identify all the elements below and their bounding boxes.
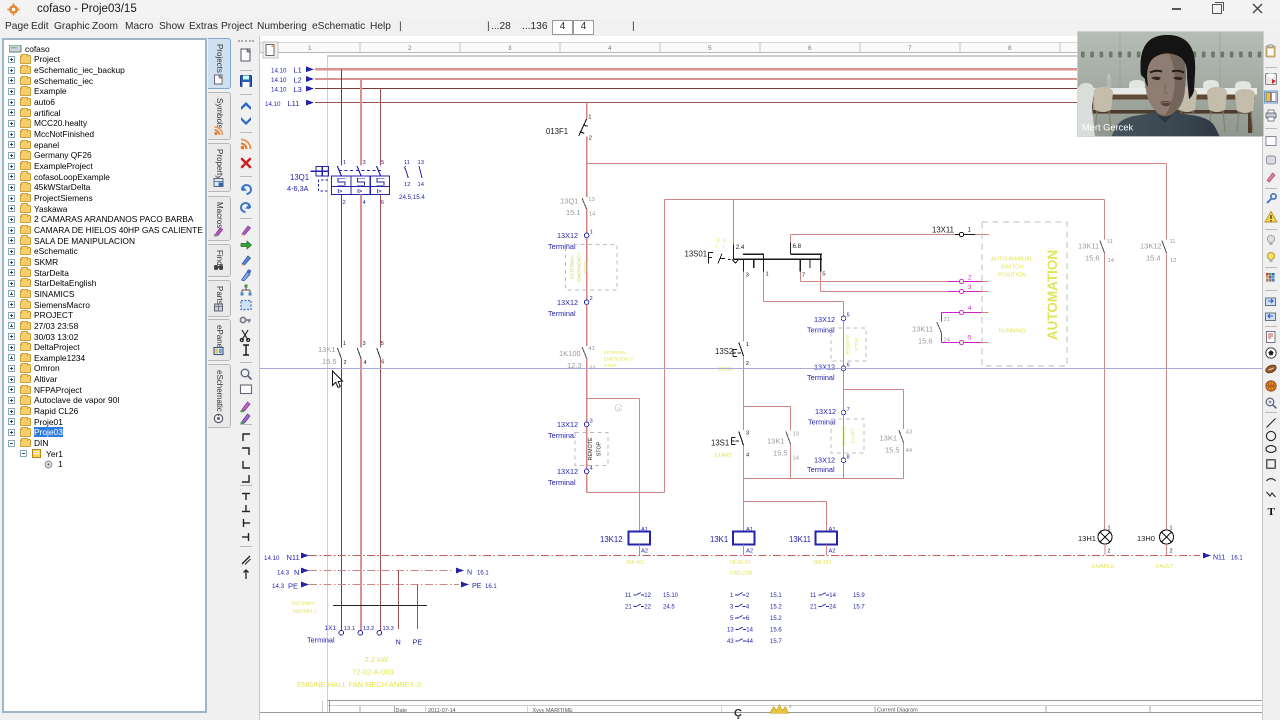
crosshair	[260, 368, 1262, 370]
svg-text:5: 5	[381, 341, 384, 347]
svg-text:5: 5	[381, 160, 384, 166]
svg-text:Mert Gercek: Mert Gercek	[1082, 123, 1133, 133]
svg-text:13Q1: 13Q1	[290, 173, 309, 182]
schematic canvas	[260, 36, 1262, 720]
svg-text:24.5: 24.5	[663, 605, 675, 611]
svg-text:I: I	[716, 244, 717, 250]
svg-text:13K12: 13K12	[600, 535, 623, 544]
svg-text:REMOTE: REMOTE	[846, 334, 852, 355]
svg-text:24: 24	[829, 605, 836, 611]
svg-text:13K12: 13K12	[1140, 241, 1162, 250]
svg-text:Ç: Ç	[734, 708, 742, 720]
svg-text:14: 14	[746, 628, 753, 634]
svg-text:1: 1	[1108, 526, 1111, 532]
svg-text:15.10: 15.10	[663, 593, 679, 599]
wire N11 rail	[309, 555, 1200, 557]
wire L1 rail	[315, 68, 1262, 70]
svg-text:14.10: 14.10	[265, 101, 281, 108]
selector bar	[733, 258, 821, 260]
svg-text:4: 4	[363, 200, 367, 206]
svg-text:Terminal: Terminal	[548, 431, 576, 440]
svg-text:12: 12	[1170, 258, 1176, 264]
svg-text:11: 11	[1170, 239, 1176, 245]
svg-text:14: 14	[793, 455, 800, 461]
svg-text:Terminal: Terminal	[807, 373, 835, 382]
svg-text:15.2: 15.2	[770, 605, 782, 611]
svg-text:13S2: 13S2	[715, 347, 733, 356]
wire pin1 down	[763, 272, 765, 302]
svg-text:Terminal: Terminal	[548, 478, 576, 487]
wire terminal2 to 1K100	[586, 305, 588, 347]
svg-text:15.6: 15.6	[918, 336, 933, 345]
svg-text:13.2: 13.2	[363, 626, 374, 632]
svg-text:POSITION: POSITION	[998, 272, 1026, 278]
svg-text:START: START	[851, 428, 857, 443]
svg-text:13X12: 13X12	[557, 231, 578, 240]
svg-text:43: 43	[727, 639, 734, 645]
wire terminal5 feed	[843, 302, 845, 317]
terminal 13X11:1	[955, 234, 975, 236]
svg-text:CAD-22M: CAD-22M	[730, 571, 752, 577]
contact 13K1 15.5 (13/14)	[790, 407, 792, 431]
svg-text:5: 5	[968, 336, 972, 342]
svg-text:a: a	[617, 406, 620, 412]
fuse-switch 013F1	[579, 119, 588, 136]
svg-text:15.2: 15.2	[770, 616, 782, 622]
wire terminal1 to terminal2	[586, 238, 588, 300]
terminal 13X12:5	[841, 316, 846, 321]
svg-text:6: 6	[381, 200, 384, 206]
svg-text:5: 5	[847, 313, 850, 319]
svg-text:43: 43	[906, 429, 912, 435]
svg-text:N: N	[467, 570, 472, 577]
label PE 16.1	[461, 582, 469, 588]
svg-text:EXTERNAL: EXTERNAL	[570, 254, 575, 279]
svg-text:11: 11	[404, 160, 410, 166]
svg-text:STOP: STOP	[854, 338, 860, 351]
dashed box remote stop	[575, 433, 608, 466]
lamp 13H1	[1098, 530, 1112, 544]
svg-text:I>: I>	[338, 189, 344, 195]
svg-text:L2: L2	[294, 75, 302, 84]
breaker 13Q1 pole contacts	[337, 166, 341, 176]
wire 13K12 coil column	[639, 399, 641, 532]
svg-text:7: 7	[802, 272, 805, 278]
svg-text:15.1: 15.1	[566, 208, 581, 217]
svg-text:15.5: 15.5	[322, 357, 337, 366]
svg-text:15.7: 15.7	[770, 639, 782, 645]
svg-text:13X12: 13X12	[814, 455, 835, 464]
svg-text:1: 1	[968, 227, 972, 233]
label N 16.1	[456, 568, 464, 574]
svg-text:I>: I>	[377, 189, 383, 195]
svg-text:15.4: 15.4	[1146, 253, 1161, 262]
ruler bar	[260, 42, 1262, 53]
menu bar	[0, 18, 1280, 36]
svg-text:NHXMH-J: NHXMH-J	[293, 609, 317, 615]
svg-text:72-02-A-003: 72-02-A-003	[352, 668, 394, 677]
svg-text:2: 2	[408, 45, 412, 52]
svg-text:AUTO-MANUAL: AUTO-MANUAL	[991, 256, 1034, 262]
svg-text:13S1: 13S1	[711, 438, 729, 447]
svg-text:A2: A2	[829, 548, 836, 554]
svg-text:2: 2	[344, 360, 347, 366]
svg-text:1: 1	[588, 115, 591, 121]
svg-text:2: 2	[746, 593, 750, 599]
svg-text:4: 4	[364, 360, 367, 366]
svg-text:5: 5	[822, 271, 825, 277]
svg-text:14.10: 14.10	[271, 77, 287, 84]
circled a mark	[615, 405, 622, 412]
contact 13K1 15.5 (43/44)	[903, 390, 905, 430]
svg-text:12: 12	[404, 182, 410, 188]
svg-text:1: 1	[343, 160, 346, 166]
coil 13K12	[629, 532, 651, 545]
logo crown	[770, 705, 789, 714]
svg-text:21: 21	[810, 605, 817, 611]
wire N rail	[309, 570, 452, 572]
selector contact ticks	[743, 259, 745, 271]
svg-text:15.7: 15.7	[853, 605, 865, 611]
wire rung bottom bus	[744, 478, 904, 480]
svg-text:15.6: 15.6	[1085, 253, 1100, 262]
svg-text:24.5,15.4: 24.5,15.4	[399, 194, 425, 201]
selector riser 2.4	[732, 244, 734, 259]
svg-text:REMOTE: REMOTE	[842, 426, 848, 447]
svg-text:2.2 kW: 2.2 kW	[365, 655, 389, 664]
svg-text:21: 21	[944, 317, 950, 323]
dashed box automation	[982, 222, 1067, 366]
wire phase3 mid	[380, 195, 382, 348]
svg-text:®: ®	[789, 705, 792, 709]
svg-text:13H0: 13H0	[1137, 534, 1155, 543]
svg-text:09-30-10: 09-30-10	[730, 560, 750, 566]
svg-text:Terminal: Terminal	[807, 465, 835, 474]
selector riser 6.8	[790, 243, 792, 255]
svg-text:6: 6	[381, 359, 384, 365]
svg-text:14.10: 14.10	[271, 87, 287, 94]
svg-text:368-161: 368-161	[813, 560, 832, 566]
svg-text:2: 2	[589, 136, 592, 142]
svg-text:Terminal: Terminal	[548, 309, 576, 318]
svg-text:15.6: 15.6	[770, 628, 782, 634]
wire terminal4 down	[586, 474, 588, 493]
svg-text:3: 3	[590, 418, 593, 424]
wire 13K1 coil drop	[743, 502, 745, 532]
wire fuse to junction	[586, 137, 588, 164]
svg-text:15.5: 15.5	[885, 445, 900, 454]
svg-text:L11: L11	[288, 99, 300, 108]
svg-text:RUNNING: RUNNING	[998, 328, 1026, 334]
svg-text:REMOTE: REMOTE	[588, 437, 594, 460]
svg-text:4: 4	[968, 306, 972, 312]
svg-text:PE: PE	[288, 581, 298, 590]
ruler corner page icon	[263, 42, 278, 58]
svg-text:N11: N11	[287, 553, 300, 562]
contact 13K12 15.4 (11/12)	[1166, 164, 1168, 240]
svg-text:16.1: 16.1	[1231, 556, 1243, 562]
title block	[327, 700, 1262, 702]
svg-text:13X12: 13X12	[814, 315, 835, 324]
wire terminal5 to terminal6	[843, 321, 845, 366]
svg-text:INTERNAL: INTERNAL	[604, 350, 627, 355]
svg-text:7: 7	[847, 407, 850, 413]
svg-text:4: 4	[590, 465, 593, 471]
svg-text:1X1: 1X1	[325, 625, 337, 632]
wire terminal8 down	[843, 463, 845, 479]
wire remote start top link	[844, 389, 904, 391]
svg-text:5: 5	[708, 45, 712, 52]
svg-text:Xyyy MARITIME: Xyyy MARITIME	[533, 708, 574, 714]
svg-text:13: 13	[727, 628, 734, 634]
wire PE drop	[417, 585, 419, 630]
svg-text:3: 3	[746, 272, 749, 278]
svg-text:I>: I>	[357, 189, 363, 195]
svg-text:14.3: 14.3	[277, 570, 290, 577]
svg-text:13K11: 13K11	[789, 535, 811, 544]
svg-text:2011-07-14: 2011-07-14	[428, 708, 456, 714]
terminal 13X12:2	[584, 300, 589, 305]
svg-text:1: 1	[590, 229, 593, 235]
svg-text:2: 2	[1108, 549, 1111, 555]
svg-text:N11: N11	[1213, 555, 1225, 562]
svg-text:A2: A2	[641, 548, 648, 554]
svg-text:2: 2	[343, 200, 346, 206]
svg-text:A1: A1	[829, 527, 836, 533]
svg-text:1: 1	[746, 342, 749, 348]
wire L2 drop	[360, 79, 362, 166]
svg-text:13X11: 13X11	[932, 225, 954, 234]
wire terminal7 feed	[843, 390, 845, 411]
svg-text:13.1: 13.1	[344, 626, 355, 632]
svg-text:2.4: 2.4	[736, 244, 745, 251]
svg-text:N: N	[294, 568, 299, 577]
svg-text:1: 1	[730, 593, 734, 599]
project tree panel	[2, 38, 207, 713]
wire phase3 lower	[380, 359, 382, 631]
svg-text:13K1: 13K1	[767, 436, 785, 445]
svg-text:2: 2	[968, 275, 972, 281]
start button 13S1	[743, 407, 745, 431]
svg-text:EMERGENCY: EMERGENCY	[604, 357, 634, 362]
svg-text:Date: Date	[396, 708, 408, 714]
wire L2 rail	[315, 78, 1262, 80]
svg-text:13K11: 13K11	[1078, 241, 1099, 250]
wire L1 drop	[340, 69, 342, 165]
svg-text:3: 3	[508, 45, 512, 52]
svg-text:1: 1	[308, 45, 312, 52]
wire terminal6 down	[843, 371, 845, 390]
svg-text:4: 4	[746, 605, 750, 611]
svg-text:5: 5	[730, 616, 734, 622]
svg-text:14: 14	[418, 182, 425, 188]
lamp 13H0	[1160, 530, 1174, 544]
svg-text:15.9: 15.9	[853, 593, 865, 599]
terminal 13X12:7	[841, 410, 846, 415]
svg-text:A1: A1	[746, 527, 753, 533]
svg-text:4: 4	[746, 452, 750, 458]
svg-text:44: 44	[906, 448, 913, 454]
svg-text:8: 8	[1008, 45, 1012, 52]
svg-text:13X12: 13X12	[557, 420, 578, 429]
svg-text:STOP: STOP	[597, 441, 603, 456]
svg-text:16.1: 16.1	[477, 571, 489, 577]
svg-text:13: 13	[418, 160, 424, 166]
contact 13K11 15.6 (11/14)	[1104, 200, 1106, 240]
svg-text:13X12: 13X12	[557, 467, 578, 476]
svg-text:6: 6	[808, 45, 812, 52]
contactor 13K1 main contacts	[338, 348, 342, 359]
svg-text:3: 3	[363, 341, 366, 347]
wire 13K11 coil drop	[826, 502, 828, 532]
svg-text:13X12: 13X12	[815, 407, 836, 416]
svg-text:2: 2	[590, 296, 593, 302]
left icon toolbar	[233, 36, 260, 720]
wire coils feed link	[743, 479, 745, 502]
svg-text:13K1: 13K1	[880, 433, 898, 442]
breaker 13Q1	[311, 167, 329, 192]
contact 13K11 15.6 (21/24)	[941, 313, 943, 322]
svg-text:STOP: STOP	[604, 363, 616, 368]
breaker 13Q1 box	[332, 176, 390, 195]
wire pin5 to box pin3	[820, 272, 822, 292]
svg-text:14: 14	[1108, 258, 1115, 264]
wire rail3 to selector	[733, 200, 735, 245]
wire N drop	[398, 571, 400, 630]
contact 13Q1 15.1	[582, 198, 587, 209]
svg-text:Terminal: Terminal	[548, 242, 576, 251]
wire 13S2 to rung	[743, 356, 745, 407]
svg-text:6: 6	[847, 363, 850, 369]
svg-text:3: 3	[730, 605, 734, 611]
svg-text:PE: PE	[472, 583, 482, 590]
svg-text:START: START	[714, 453, 733, 459]
svg-text:013F1: 013F1	[546, 127, 568, 136]
svg-text:3: 3	[746, 430, 749, 436]
wire junction2 to 13K12 column	[587, 398, 640, 400]
sheet border	[326, 56, 328, 713]
wire PE rail	[309, 584, 459, 586]
svg-text:ENABLE: ENABLE	[1092, 564, 1115, 570]
wire box pin4	[942, 312, 983, 314]
wire L11 to fuse	[586, 103, 588, 119]
wire L3 rail	[315, 88, 1262, 90]
wire to 13X11	[791, 234, 956, 236]
wire 13K11 contact to lamp	[1104, 253, 1106, 530]
svg-text:FAULT: FAULT	[1156, 564, 1174, 570]
svg-text:14.10: 14.10	[271, 67, 287, 74]
svg-text:STOP: STOP	[717, 367, 733, 373]
svg-text:6.8: 6.8	[793, 243, 802, 250]
svg-text:3: 3	[363, 160, 366, 166]
wire 1K100 to junction2	[586, 358, 588, 399]
svg-text:1: 1	[766, 271, 769, 277]
svg-text:AUTOMATION: AUTOMATION	[1045, 250, 1060, 340]
mouse cursor	[333, 371, 343, 388]
svg-text:4-6,3A: 4-6,3A	[287, 184, 309, 193]
svg-text:ENGINE HALL FAN MECH ANNEX-2: ENGINE HALL FAN MECH ANNEX-2	[297, 680, 421, 689]
svg-text:13S01: 13S01	[685, 249, 708, 258]
svg-text:7: 7	[908, 45, 912, 52]
svg-text:14.10: 14.10	[264, 555, 280, 562]
svg-text:13K11: 13K11	[912, 324, 933, 333]
svg-text:14: 14	[589, 212, 596, 218]
svg-text:13: 13	[793, 431, 799, 437]
wire bottom link to riser	[587, 492, 665, 494]
svg-text:EMERGENCY: EMERGENCY	[577, 252, 582, 282]
svg-text:2: 2	[746, 361, 749, 367]
svg-text:L1: L1	[294, 66, 302, 75]
wire rung top bus	[744, 406, 791, 408]
svg-text:11: 11	[1107, 239, 1113, 245]
terminal 13X12:8	[841, 458, 846, 463]
wire 13K12 contact to lamp	[1166, 253, 1168, 530]
svg-text:SWITCH: SWITCH	[1001, 264, 1024, 270]
right icon toolbar	[1262, 36, 1280, 720]
svg-text:14: 14	[829, 593, 836, 599]
svg-text:3: 3	[968, 285, 972, 291]
wire junction to 13Q1 aux	[586, 164, 588, 198]
terminal 13X12:4	[584, 469, 589, 474]
svg-text:16.1: 16.1	[485, 584, 497, 590]
dashed box manual stop	[831, 328, 866, 361]
svg-text:A1: A1	[641, 527, 648, 533]
svg-text:13H1: 13H1	[1078, 534, 1096, 543]
svg-text:13.3: 13.3	[383, 626, 394, 632]
svg-text:11: 11	[810, 593, 817, 599]
wire rail 15.2	[587, 163, 1167, 165]
cable marker	[333, 605, 427, 607]
svg-text:368-461: 368-461	[626, 560, 645, 566]
wire phase1 mid	[340, 195, 342, 348]
svg-text:13Q1: 13Q1	[560, 196, 578, 205]
wire terminal3 to terminal4	[586, 427, 588, 469]
terminal 13X12:3	[584, 422, 589, 427]
webcam overlay	[1077, 31, 1264, 137]
svg-text:1K100: 1K100	[559, 349, 581, 358]
svg-text:I: I	[723, 244, 724, 250]
svg-text:6: 6	[746, 616, 750, 622]
svg-text:44: 44	[746, 639, 753, 645]
svg-text:L3: L3	[294, 85, 302, 94]
svg-text:1: 1	[343, 341, 346, 347]
dashed box remote start	[831, 419, 864, 453]
svg-text:14.3: 14.3	[272, 583, 285, 590]
wire phase1 lower	[340, 359, 342, 631]
wire junction2 to terminal3	[586, 399, 588, 423]
label N11 16.1	[1203, 553, 1211, 559]
svg-text:PE: PE	[413, 638, 423, 647]
svg-text:8: 8	[847, 455, 850, 461]
svg-text:2: 2	[1170, 549, 1173, 555]
svg-text:STOP: STOP	[584, 261, 589, 273]
svg-text:Current Diagram: Current Diagram	[877, 708, 918, 714]
svg-text:T: T	[1268, 506, 1276, 518]
terminal 13X12:6	[841, 366, 846, 371]
wire phase2 lower	[360, 359, 362, 631]
svg-text:13X12: 13X12	[557, 298, 578, 307]
svg-text:13K1: 13K1	[318, 345, 336, 354]
title bar	[0, 0, 1280, 18]
wire L3 drop	[380, 89, 382, 166]
wire phase2 mid	[360, 195, 362, 348]
coil 13K11	[816, 532, 838, 545]
wire rail 15.3	[665, 199, 1105, 201]
svg-text:15.5: 15.5	[773, 448, 788, 457]
svg-text:Terminal: Terminal	[307, 636, 335, 645]
svg-text:5x2,5mm²: 5x2,5mm²	[292, 601, 315, 607]
wire L11 rail	[315, 102, 1262, 104]
